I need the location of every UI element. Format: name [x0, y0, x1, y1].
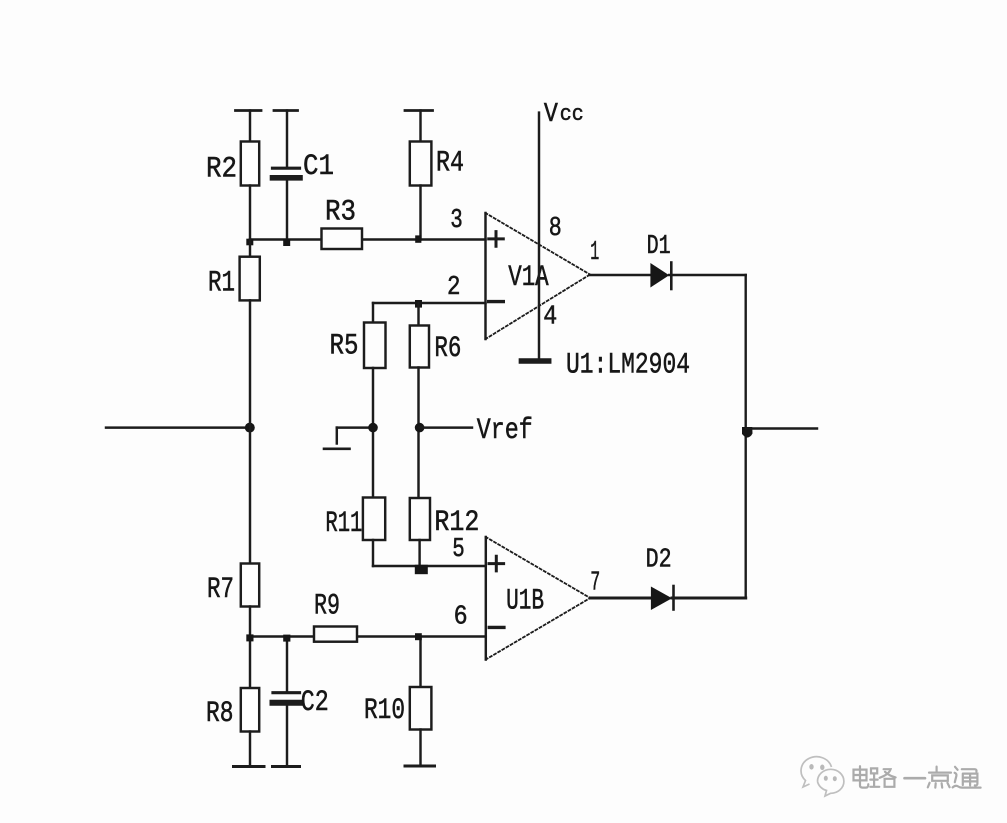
svg-text:R8: R8: [206, 697, 234, 731]
ground bar pin 4: [521, 358, 548, 364]
svg-text:C1: C1: [303, 150, 334, 184]
svg-text:R7: R7: [207, 573, 234, 607]
svg-text:R3: R3: [325, 196, 356, 230]
char 一: [905, 777, 926, 780]
node C1 junction: [283, 239, 290, 246]
resistor R1: [208, 240, 260, 564]
svg-text:V1A: V1A: [508, 261, 549, 295]
node R7/R8 junction: [246, 634, 253, 641]
op-amp U1B: [486, 537, 590, 660]
svg-text:R2: R2: [206, 153, 237, 187]
svg-text:4: 4: [543, 303, 557, 333]
ground bar below R8: [234, 765, 265, 768]
wire Vref: [420, 426, 472, 428]
resistor R4: [405, 111, 464, 240]
node C2 junction: [283, 635, 290, 642]
char 通: [953, 767, 981, 788]
wire: [419, 111, 421, 142]
svg-text:cc: cc: [560, 102, 584, 127]
svg-text:U1:LM2904: U1:LM2904: [566, 349, 690, 383]
svg-text:V: V: [544, 100, 559, 130]
svg-text:D1: D1: [647, 232, 671, 262]
svg-text:6: 6: [454, 603, 468, 633]
svg-text:R9: R9: [314, 590, 340, 624]
wire pin3 bus: [250, 238, 322, 240]
op-amp U1A: [486, 213, 591, 339]
watermark text 电路一点通: [854, 766, 981, 787]
svg-text:2: 2: [447, 273, 461, 303]
node R12 bottom junction: [415, 565, 428, 574]
svg-text:R4: R4: [436, 147, 464, 181]
wire: [286, 111, 288, 167]
svg-text:8: 8: [549, 214, 562, 244]
capacitor C2: [273, 637, 329, 767]
wire pin2: [373, 302, 486, 304]
svg-text:R5: R5: [330, 330, 359, 364]
ground (Vref divider): [324, 428, 373, 449]
diode D1: [590, 232, 746, 289]
capacitor C1: [273, 111, 335, 240]
char 路: [870, 768, 895, 786]
resistor R11: [325, 498, 385, 567]
svg-text:R10: R10: [364, 694, 405, 728]
resistor R3: [322, 196, 363, 250]
svg-text:1: 1: [590, 238, 599, 268]
wire pin6 bus: [250, 635, 314, 637]
node Vref left: [368, 423, 378, 433]
terminal bar R4 top: [405, 109, 433, 112]
resistor R10: [364, 637, 435, 767]
resistor R9: [314, 590, 357, 642]
terminal bar R2 top: [236, 109, 262, 112]
svg-text:R6: R6: [434, 332, 461, 366]
diode D2: [590, 546, 746, 611]
svg-text:3: 3: [450, 206, 463, 236]
svg-text:U1B: U1B: [506, 585, 544, 619]
wire pin5: [373, 565, 486, 567]
svg-text:C2: C2: [301, 686, 329, 720]
node R10 junction: [415, 633, 422, 640]
wire output vertical: [745, 275, 747, 598]
svg-text:D2: D2: [646, 546, 672, 576]
node input junction: [245, 423, 255, 433]
resistor R12: [410, 498, 480, 566]
node R2/R1 junction: [246, 239, 253, 246]
wire input left: [106, 426, 250, 428]
resistor R5: [330, 323, 386, 498]
char 电: [854, 766, 869, 787]
node output junction: [742, 427, 753, 438]
resistor R8: [206, 637, 264, 767]
char 点: [928, 767, 951, 788]
resistor R6: [410, 303, 462, 498]
svg-text:7: 7: [590, 569, 600, 599]
svg-text:Vref: Vref: [477, 414, 533, 448]
svg-text:R1: R1: [208, 267, 235, 301]
ground bar below C2: [273, 765, 300, 768]
ground bar below R10: [405, 765, 435, 768]
Vcc rail: [521, 100, 583, 361]
terminal bar C1 top: [274, 109, 298, 112]
resistor R2: [206, 111, 261, 240]
node R4 junction: [415, 235, 421, 242]
resistor R7: [207, 564, 259, 637]
watermark logo: [801, 757, 844, 796]
node R6 top junction: [415, 300, 422, 308]
svg-text:5: 5: [452, 535, 465, 565]
svg-text:R11: R11: [325, 507, 362, 541]
node Vref right: [415, 423, 425, 433]
wire: [249, 111, 251, 142]
wire output right: [746, 427, 817, 429]
